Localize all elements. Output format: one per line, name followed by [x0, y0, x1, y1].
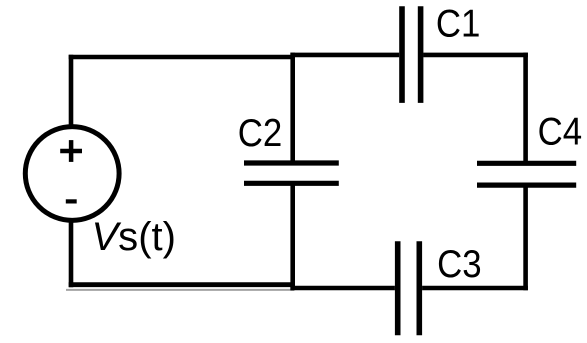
svg-text:C1: C1	[436, 3, 481, 46]
svg-text:C2: C2	[238, 112, 282, 155]
svg-text:C4: C4	[538, 111, 583, 154]
svg-text:Vs(t): Vs(t)	[92, 215, 177, 259]
svg-text:C3: C3	[437, 243, 482, 286]
